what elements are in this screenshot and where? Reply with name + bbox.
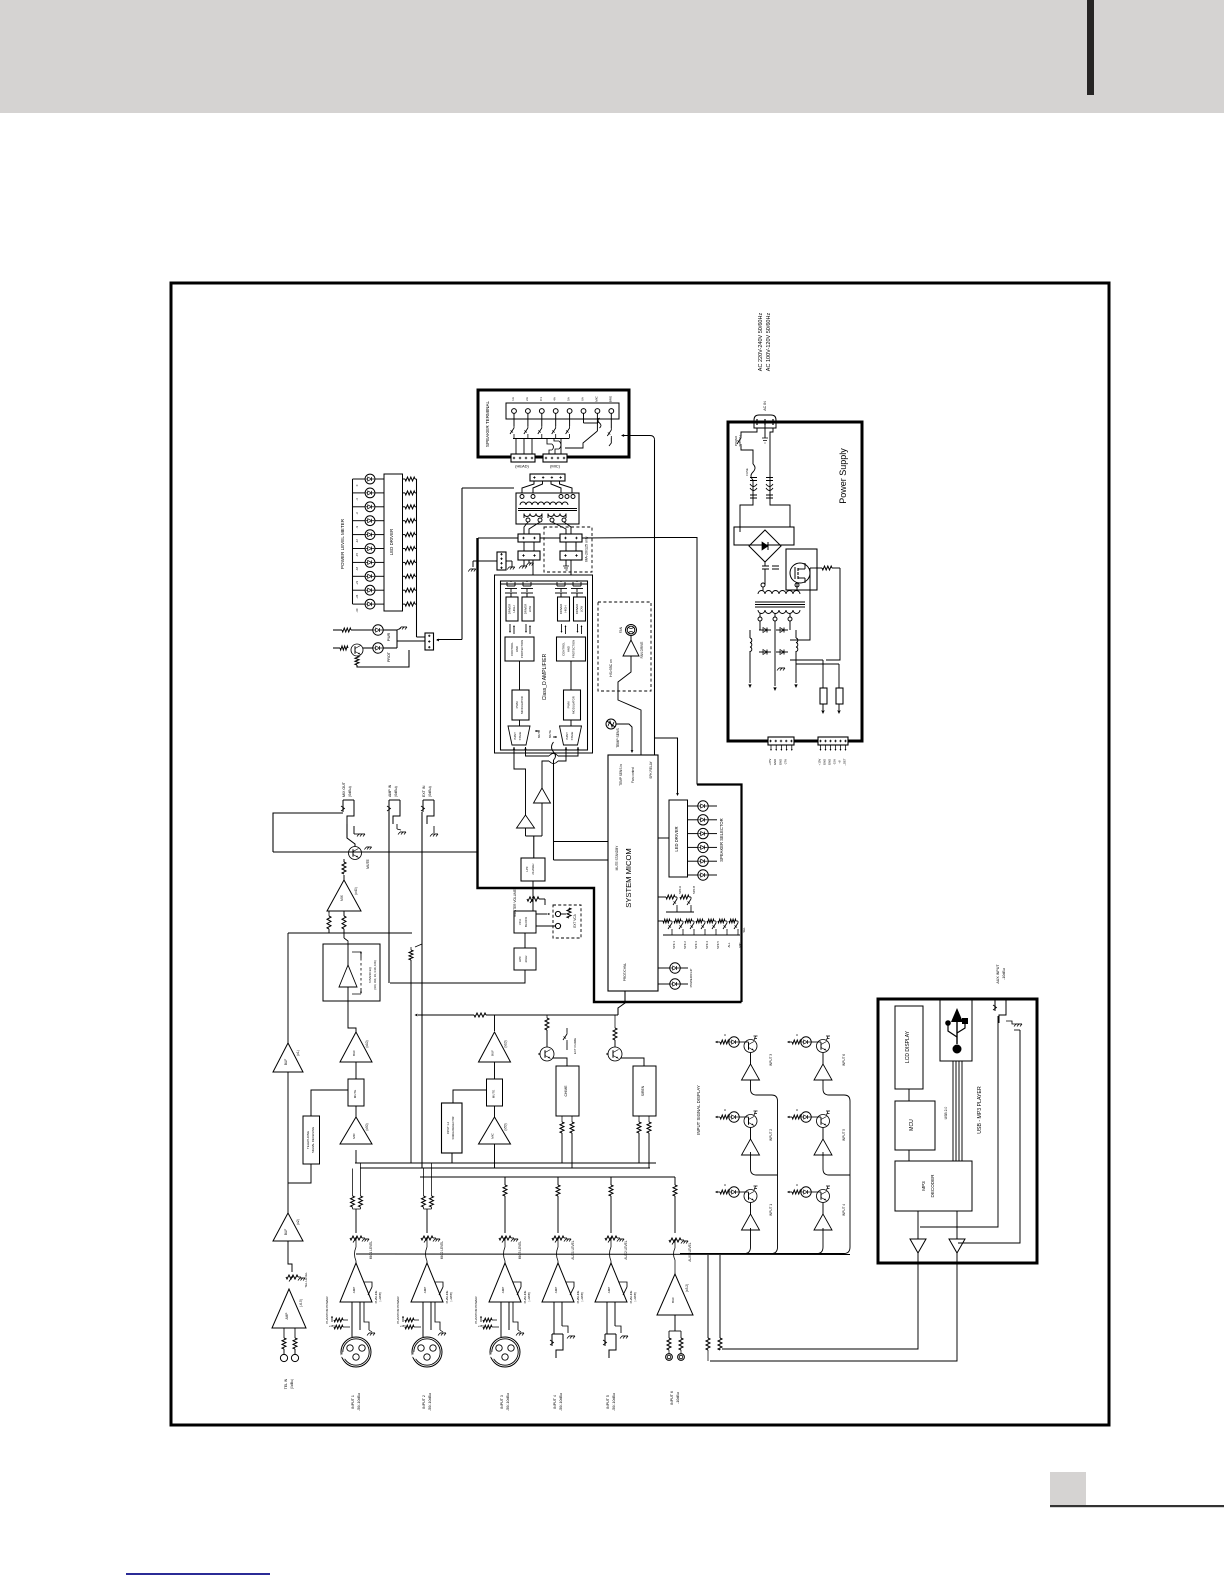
svg-text:MUTE: MUTE <box>366 858 370 868</box>
svg-text:LOW: LOW <box>528 605 532 612</box>
svg-text:+15V: +15V <box>818 759 822 766</box>
svg-text:SPEAKER TERMINAL: SPEAKER TERMINAL <box>485 400 490 447</box>
svg-text:BLOCK: BLOCK <box>524 917 528 927</box>
svg-text:INPUT 6: INPUT 6 <box>670 1391 674 1405</box>
svg-text:(x50): (x50) <box>504 1123 508 1130</box>
svg-text:-50/-10dBu: -50/-10dBu <box>612 1393 616 1411</box>
svg-text:TEL LEVEL: TEL LEVEL <box>304 1272 308 1288</box>
svg-text:AMP: AMP <box>554 1287 558 1294</box>
svg-text:20Hz: 20Hz <box>524 955 528 963</box>
svg-text:PHANTOM POWER: PHANTOM POWER <box>325 1296 329 1324</box>
svg-text:R: R <box>723 1034 727 1036</box>
svg-text:PWM: PWM <box>515 701 519 709</box>
svg-text:SIREN: SIREN <box>641 1085 645 1096</box>
svg-text:-50/-10dBu: -50/-10dBu <box>506 1393 510 1411</box>
svg-text:-12: -12 <box>355 539 359 543</box>
svg-text:-15V: -15V <box>833 759 837 765</box>
svg-text:DRIVER: DRIVER <box>508 604 512 615</box>
svg-text:INPUT SIGNAL DISPLAY: INPUT SIGNAL DISPLAY <box>696 1085 701 1135</box>
svg-text:[+48/B]: [+48/B] <box>378 1292 382 1301</box>
svg-text:TEMP SENS: TEMP SENS <box>616 728 620 748</box>
svg-text:DECODER: DECODER <box>930 1174 935 1198</box>
svg-text:PWM: PWM <box>567 701 571 709</box>
svg-text:TELEPHONE: TELEPHONE <box>306 1131 310 1149</box>
svg-text:MIX OUT: MIX OUT <box>342 781 346 797</box>
svg-text:ALL: ALL <box>727 942 731 947</box>
svg-text:[+48/B]: [+48/B] <box>527 1292 531 1301</box>
svg-text:INPUT 5: INPUT 5 <box>842 1129 846 1141</box>
svg-text:MCU: MCU <box>909 1119 915 1131</box>
svg-text:R: R <box>795 1034 799 1036</box>
svg-text:SPK 5: SPK 5 <box>716 941 720 949</box>
svg-text:AMP: AMP <box>352 1287 356 1294</box>
svg-text:INPUT 3: INPUT 3 <box>769 1054 773 1066</box>
svg-text:6A: 6A <box>581 397 585 401</box>
svg-text:INPUT: INPUT <box>513 732 517 740</box>
svg-text:HIGH: HIGH <box>512 606 516 613</box>
svg-text:CHIME: CHIME <box>564 1085 568 1097</box>
svg-text:POWER LEVEL METER: POWER LEVEL METER <box>340 518 345 569</box>
svg-text:MUTE: MUTE <box>548 730 552 738</box>
svg-text:MUTE STANDBY: MUTE STANDBY <box>615 845 619 871</box>
svg-text:(0dBu): (0dBu) <box>394 786 398 797</box>
svg-text:(0dBu): (0dBu) <box>290 1379 294 1389</box>
svg-text:CONTROL: CONTROL <box>510 642 514 656</box>
svg-text:SYSTEM MICOM: SYSTEM MICOM <box>624 848 633 908</box>
svg-text:Class_D AMPLIFIER: Class_D AMPLIFIER <box>542 653 548 700</box>
svg-text:GND: GND <box>778 759 782 765</box>
svg-text:HS>55C on: HS>55C on <box>609 659 613 677</box>
svg-text:FAN DRIVE: FAN DRIVE <box>640 642 644 659</box>
svg-text:DRIVER: DRIVER <box>575 604 579 615</box>
svg-text:LOW: LOW <box>580 605 584 612</box>
svg-text:INPUT 2: INPUT 2 <box>422 1395 426 1409</box>
svg-text:-50/-10dBu: -50/-10dBu <box>428 1393 432 1411</box>
svg-text:R: R <box>795 1184 799 1186</box>
svg-text:PROT: PROT <box>387 651 391 662</box>
svg-text:MIC: MIC <box>491 1132 495 1138</box>
svg-text:Power Supply: Power Supply <box>838 448 848 504</box>
svg-text:(100, 330, 1K, 3.3K, 10K): (100, 330, 1K, 3.3K, 10K) <box>373 960 377 989</box>
svg-text:TEMP SENS in: TEMP SENS in <box>619 764 623 786</box>
svg-text:MA-20/125 only: MA-20/125 only <box>585 536 589 561</box>
svg-text:(0dBu): (0dBu) <box>428 786 432 797</box>
svg-text:INPUT 1: INPUT 1 <box>351 1395 355 1409</box>
svg-text:SPEAKER SELECTOR: SPEAKER SELECTOR <box>719 818 724 861</box>
svg-text:20-20kHz: 20-20kHz <box>531 863 535 875</box>
svg-text:-24: -24 <box>355 594 359 598</box>
svg-text:INPUT 1-2: INPUT 1-2 <box>446 1121 450 1134</box>
svg-text:CONTROL: CONTROL <box>562 642 566 656</box>
svg-text:-15: -15 <box>355 553 359 557</box>
svg-text:PHANTOM POWER: PHANTOM POWER <box>396 1296 400 1324</box>
svg-text:MUTE: MUTE <box>492 1090 496 1099</box>
svg-text:_DET: _DET <box>843 758 847 766</box>
svg-text:+27V: +27V <box>768 759 772 766</box>
svg-text:AC 100V-120V 50/60Hz: AC 100V-120V 50/60Hz <box>766 313 772 372</box>
svg-text:LED DRIVER: LED DRIVER <box>674 826 679 851</box>
svg-text:R: R <box>723 1109 727 1111</box>
svg-text:1A: 1A <box>511 397 515 401</box>
svg-text:AMP: AMP <box>285 1313 289 1320</box>
svg-text:POWER/CLIP: POWER/CLIP <box>689 969 693 988</box>
svg-text:SPK 3: SPK 3 <box>694 941 698 949</box>
svg-text:SEL: SEL <box>742 927 746 933</box>
svg-text:MODULATOR: MODULATOR <box>572 696 576 714</box>
svg-text:[+48/B]: [+48/B] <box>633 1292 637 1301</box>
svg-text:SPK 1: SPK 1 <box>672 941 676 949</box>
svg-text:TEL IN: TEL IN <box>284 1378 288 1389</box>
svg-text:(x10): (x10) <box>504 1040 508 1047</box>
svg-text:(-6.5): (-6.5) <box>299 1299 303 1307</box>
svg-text:EXT VCA: EXT VCA <box>573 913 577 927</box>
svg-text:BUF: BUF <box>284 1229 288 1235</box>
svg-text:PHANTOM POWER: PHANTOM POWER <box>474 1296 478 1324</box>
svg-text:6 BAND EQ: 6 BAND EQ <box>368 966 372 983</box>
svg-text:AMP: AMP <box>501 1287 505 1294</box>
svg-text:GND: GND <box>823 759 827 765</box>
svg-text:STAGE: STAGE <box>518 731 522 740</box>
svg-text:BUF: BUF <box>671 1297 675 1303</box>
svg-text:SPK RELAY: SPK RELAY <box>649 760 653 778</box>
svg-text:LPF: LPF <box>525 866 529 872</box>
svg-text:5A: 5A <box>567 397 571 401</box>
svg-text:[+48/B]: [+48/B] <box>449 1292 453 1301</box>
svg-text:MIC1 LEVEL: MIC1 LEVEL <box>369 1241 373 1260</box>
svg-text:BUF: BUF <box>352 1050 356 1056</box>
svg-text:INPUT 5: INPUT 5 <box>606 1395 610 1409</box>
svg-text:INPUT 3: INPUT 3 <box>500 1395 504 1409</box>
svg-text:HIGH: HIGH <box>564 606 568 613</box>
svg-text:DRIVER: DRIVER <box>524 604 528 615</box>
svg-text:(x2): (x2) <box>296 1219 300 1225</box>
svg-text:DRIVER: DRIVER <box>559 604 563 615</box>
svg-text:AUX2 LEVEL: AUX2 LEVEL <box>624 1240 628 1259</box>
svg-text:2A: 2A <box>525 397 529 401</box>
svg-text:INPUT 1: INPUT 1 <box>769 1204 773 1216</box>
svg-text:MIC2 LEVEL: MIC2 LEVEL <box>440 1241 444 1260</box>
svg-text:Fan control: Fan control <box>631 767 635 783</box>
svg-text:USB - MP3 PLAYER: USB - MP3 PLAYER <box>977 1086 983 1134</box>
svg-text:R: R <box>723 1184 727 1186</box>
svg-text:+8: +8 <box>838 760 842 764</box>
svg-text:AC IN: AC IN <box>763 401 767 411</box>
svg-text:(x50): (x50) <box>365 1123 369 1130</box>
svg-text:(x1): (x1) <box>296 1050 300 1056</box>
svg-text:INPUT 4: INPUT 4 <box>842 1204 846 1216</box>
svg-text:-50/-10dBu: -50/-10dBu <box>559 1393 563 1411</box>
svg-text:-18: -18 <box>355 566 359 570</box>
svg-text:INPUT: INPUT <box>565 732 569 740</box>
svg-text:AND: AND <box>515 646 519 652</box>
svg-text:MP3: MP3 <box>921 1181 926 1191</box>
svg-text:VCA: VCA <box>518 919 522 925</box>
svg-text:SPK A: SPK A <box>678 886 682 894</box>
svg-text:(x10): (x10) <box>365 1040 369 1047</box>
svg-text:AND: AND <box>567 646 571 652</box>
svg-text:(0dBu): (0dBu) <box>348 786 352 797</box>
svg-text:AUX3 LEVEL: AUX3 LEVEL <box>688 1242 692 1261</box>
svg-text:-21: -21 <box>355 580 359 584</box>
svg-text:MIC: MIC <box>352 1132 356 1138</box>
svg-text:LED DRIVER: LED DRIVER <box>389 529 394 555</box>
svg-text:AMP: AMP <box>423 1287 427 1294</box>
svg-text:SPK 2: SPK 2 <box>683 941 687 949</box>
svg-text:FAN: FAN <box>619 626 623 633</box>
svg-text:C1: C1 <box>539 397 543 401</box>
svg-text:SPK B: SPK B <box>692 886 696 894</box>
svg-text:PROT/CHNL: PROT/CHNL <box>623 963 627 982</box>
svg-text:MIC: MIC <box>738 942 742 947</box>
svg-text:[+48/B]: [+48/B] <box>580 1292 584 1301</box>
svg-text:BUF: BUF <box>284 1059 288 1065</box>
svg-text:INPUT 6: INPUT 6 <box>842 1054 846 1066</box>
svg-text:GND: GND <box>773 759 777 765</box>
svg-text:FUSE: FUSE <box>745 468 749 476</box>
svg-text:4A: 4A <box>553 397 557 401</box>
svg-text:MIC: MIC <box>594 395 598 401</box>
svg-text:-9: -9 <box>355 526 359 529</box>
svg-text:-6: -6 <box>355 512 359 515</box>
svg-text:LCD DISPLAY: LCD DISPLAY <box>905 1030 911 1063</box>
svg-text:MUTE: MUTE <box>353 1090 357 1099</box>
svg-text:INPUT 4: INPUT 4 <box>553 1395 557 1409</box>
svg-text:HPF: HPF <box>518 956 522 962</box>
svg-text:EXT CHIME: EXT CHIME <box>573 1038 577 1054</box>
svg-text:AC 220V-240V 50/60Hz: AC 220V-240V 50/60Hz <box>758 313 764 372</box>
svg-text:SIGNAL RECEIVING: SIGNAL RECEIVING <box>311 1127 315 1153</box>
svg-text:-10dBu: -10dBu <box>1002 968 1006 980</box>
svg-text:(MIC): (MIC) <box>550 464 561 469</box>
svg-text:EXT IN: EXT IN <box>422 785 426 797</box>
svg-text:MODULATOR: MODULATOR <box>520 696 524 714</box>
svg-text:SIGNAL REFLECTOR: SIGNAL REFLECTOR <box>452 1116 455 1139</box>
svg-text:USB 2.0: USB 2.0 <box>944 1107 948 1120</box>
svg-text:BRG: BRG <box>608 395 612 402</box>
svg-text:AMP: AMP <box>607 1287 611 1294</box>
svg-text:PROTECTION: PROTECTION <box>520 640 524 658</box>
svg-text:-27V: -27V <box>784 759 788 765</box>
svg-text:-30: -30 <box>355 608 359 612</box>
svg-text:AUX INPUT: AUX INPUT <box>996 964 1000 984</box>
svg-text:SPK 4: SPK 4 <box>705 941 709 949</box>
svg-text:MIC3 LEVEL: MIC3 LEVEL <box>518 1241 522 1260</box>
svg-text:AMP IN: AMP IN <box>388 784 392 797</box>
svg-text:MIX: MIX <box>340 894 344 901</box>
svg-text:INPUT 2: INPUT 2 <box>769 1129 773 1141</box>
svg-text:PWR: PWR <box>387 632 391 641</box>
svg-text:PROTECTION: PROTECTION <box>572 640 576 658</box>
svg-text:AUX1 LEVEL: AUX1 LEVEL <box>571 1240 575 1259</box>
svg-text:(x40): (x40) <box>354 887 358 895</box>
svg-text:(HEAD): (HEAD) <box>515 464 529 469</box>
svg-text:STAGE: STAGE <box>570 731 574 740</box>
svg-text:-3: -3 <box>355 498 359 501</box>
svg-text:-50/-10dBu: -50/-10dBu <box>357 1393 361 1411</box>
svg-text:(x3.2): (x3.2) <box>685 1284 689 1292</box>
svg-text:GND: GND <box>828 759 832 765</box>
svg-text:R: R <box>795 1109 799 1111</box>
svg-text:-10dBu: -10dBu <box>676 1392 680 1404</box>
svg-text:BUF: BUF <box>491 1050 495 1056</box>
